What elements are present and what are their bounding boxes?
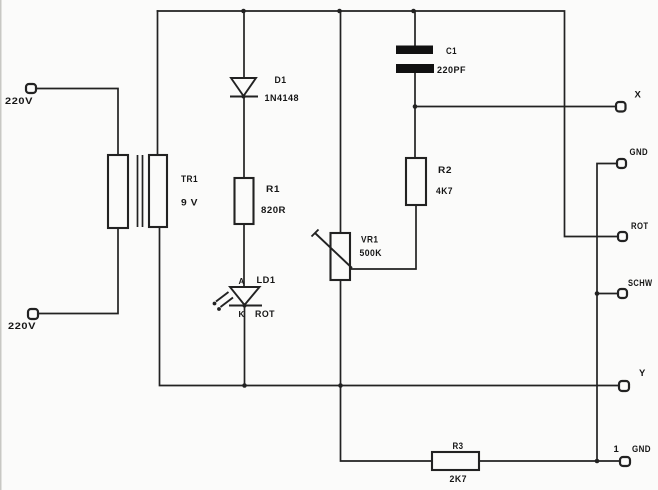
svg-text:820R: 820R [261, 205, 286, 216]
svg-text:TR1: TR1 [181, 174, 198, 185]
svg-text:1: 1 [614, 444, 620, 455]
svg-text:4K7: 4K7 [436, 186, 453, 197]
svg-text:GND: GND [630, 147, 649, 158]
svg-text:220PF: 220PF [437, 65, 466, 76]
svg-text:220V: 220V [8, 321, 36, 332]
svg-text:ROT: ROT [631, 221, 649, 232]
svg-text:R1: R1 [266, 184, 280, 195]
svg-text:2K7: 2K7 [450, 474, 468, 485]
svg-text:R2: R2 [438, 165, 452, 176]
svg-text:LD1: LD1 [257, 275, 276, 286]
svg-text:C1: C1 [446, 46, 457, 57]
svg-text:9 V: 9 V [181, 198, 198, 209]
svg-text:ROT: ROT [255, 309, 275, 320]
svg-text:VR1: VR1 [361, 235, 379, 246]
svg-text:K: K [239, 310, 245, 319]
svg-text:SCHW: SCHW [628, 278, 653, 289]
svg-text:X: X [635, 90, 642, 101]
svg-text:R3: R3 [453, 441, 464, 452]
svg-text:500K: 500K [360, 248, 383, 259]
svg-text:A: A [239, 277, 245, 286]
svg-text:D1: D1 [275, 75, 287, 86]
svg-text:220V: 220V [5, 96, 33, 107]
svg-text:Y: Y [639, 368, 646, 379]
svg-text:GND: GND [632, 444, 651, 455]
svg-text:1N4148: 1N4148 [265, 93, 300, 104]
